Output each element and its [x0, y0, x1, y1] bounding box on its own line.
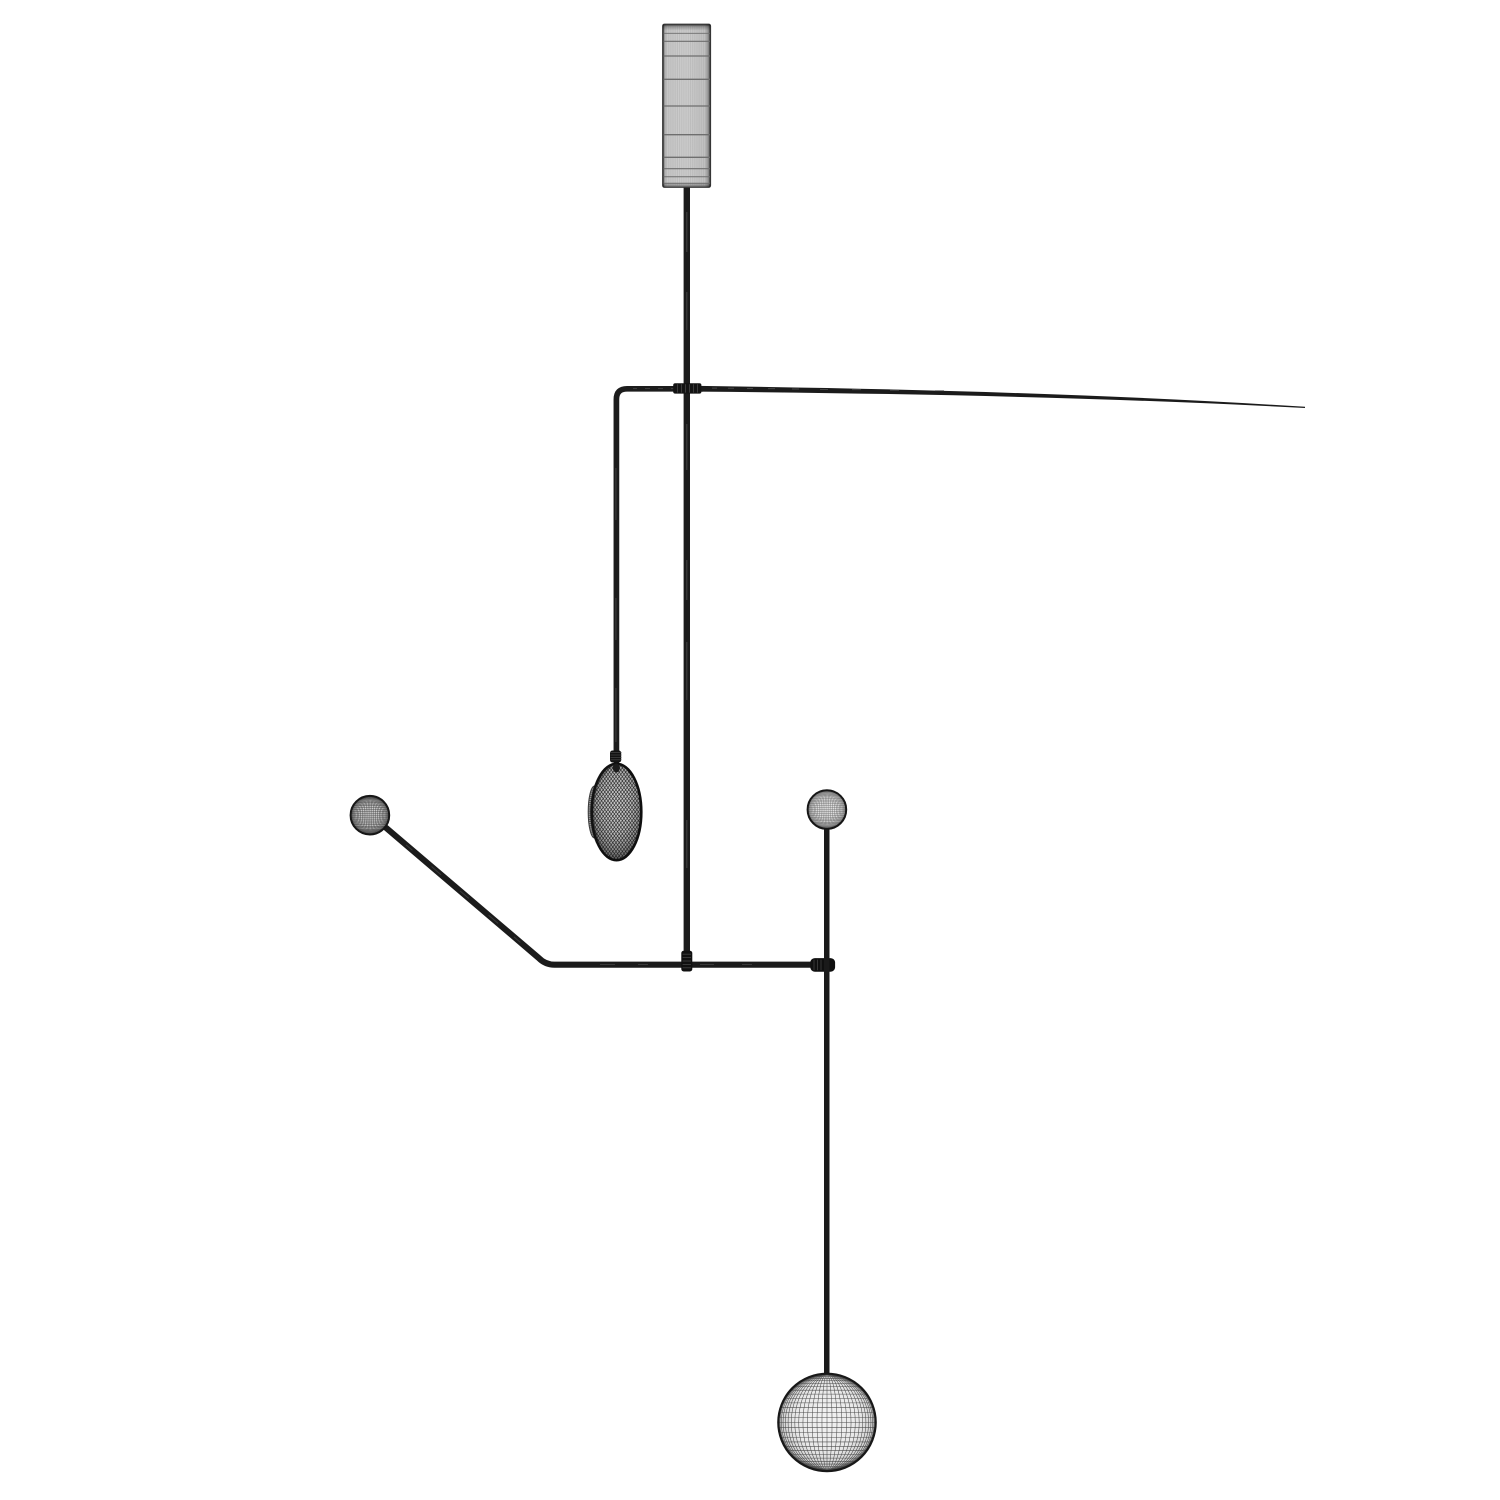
right junction ferrule (horizontal) — [810, 958, 835, 972]
upper left arm and left drop rod (to egg shade) — [616, 389, 703, 752]
long tapered right arm — [699, 386, 1305, 408]
ceiling canopy cylinder shade — [663, 24, 711, 188]
ferrule above egg shade — [610, 751, 621, 763]
right vertical rod (small sphere to big sphere) — [824, 826, 830, 1382]
stem into egg — [614, 761, 619, 769]
lower junction ferrule (vertical) — [681, 951, 692, 972]
egg shade side rim sliver — [588, 786, 601, 838]
upper junction ferrule on main rod — [673, 383, 701, 393]
specular dashes on main rod — [686, 212, 688, 868]
main vertical drop rod — [684, 180, 690, 968]
left small wireframe sphere — [351, 796, 390, 835]
right small wireframe sphere — [808, 790, 847, 829]
egg shade face — [590, 762, 644, 862]
lower diagonal arm from left sphere, bend, horizontal to right junction — [378, 821, 827, 965]
specular dashes on left arm — [633, 388, 676, 390]
large wireframe sphere — [778, 1374, 875, 1471]
